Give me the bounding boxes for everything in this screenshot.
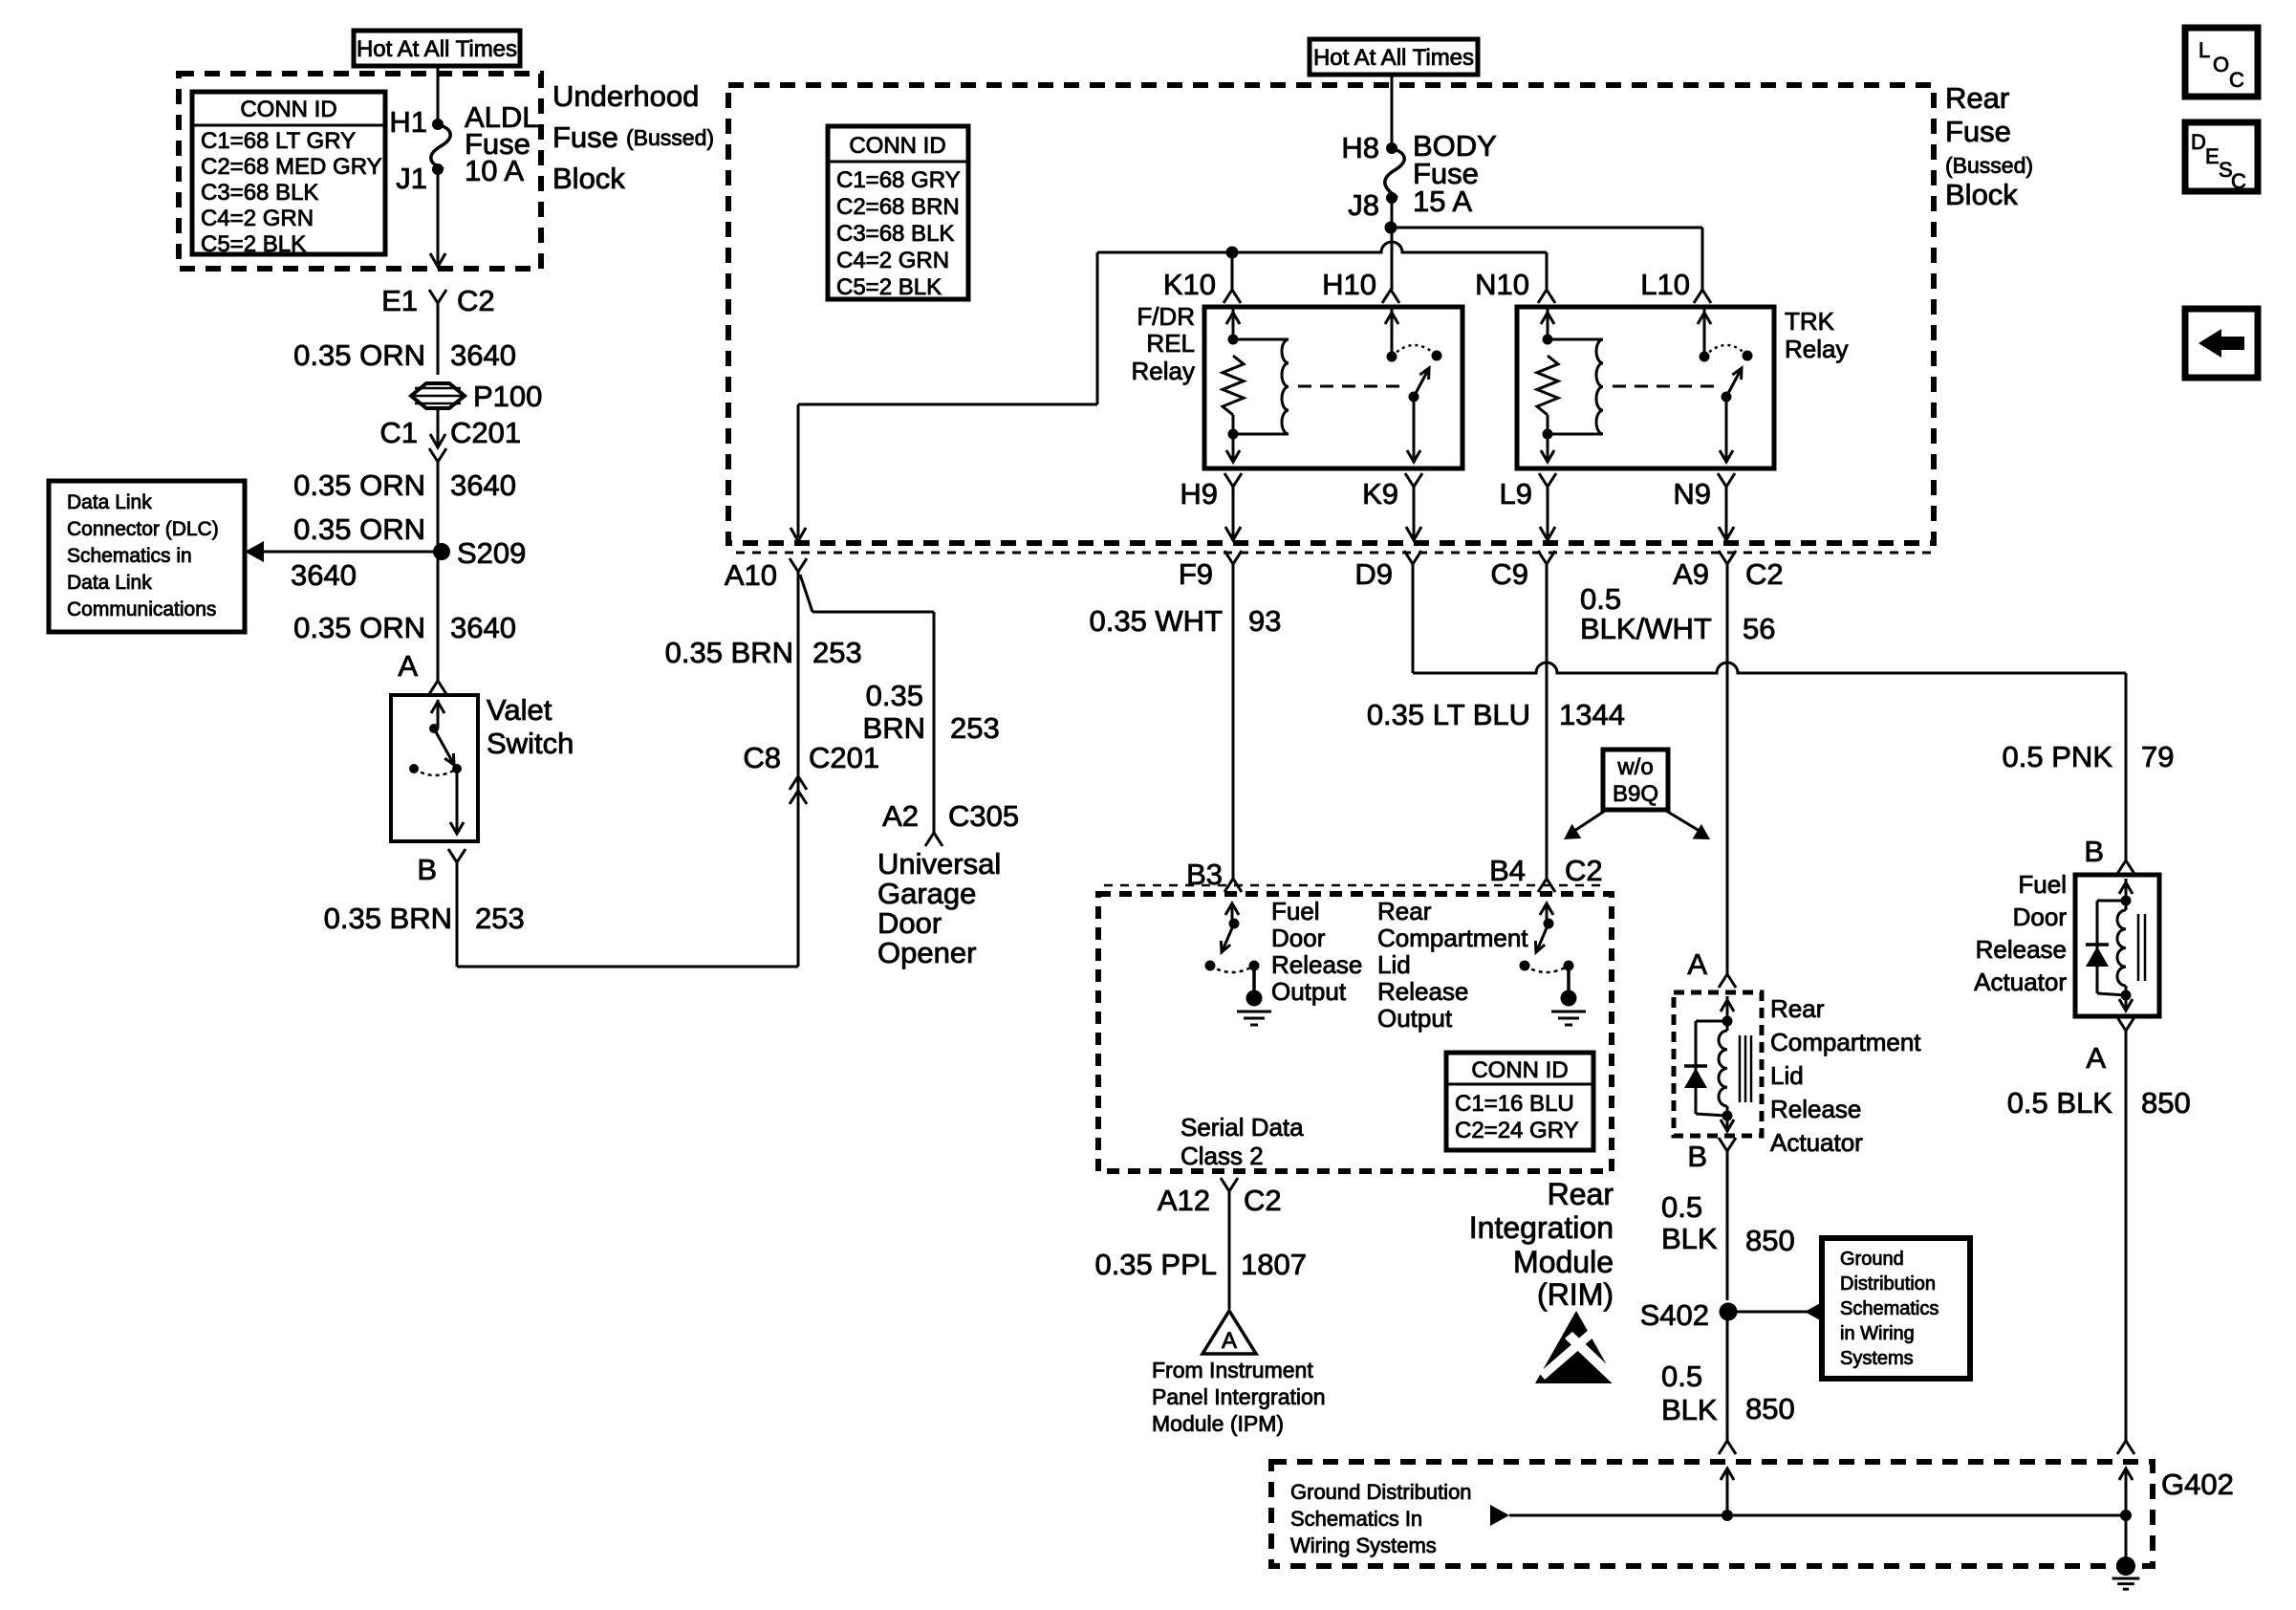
svg-text:C9: C9	[1490, 557, 1528, 591]
svg-text:Communications: Communications	[67, 598, 216, 620]
svg-text:Release: Release	[1770, 1095, 1861, 1123]
svg-text:Fuse: Fuse	[552, 120, 618, 154]
svg-text:F/DR: F/DR	[1137, 302, 1195, 331]
svg-text:J1: J1	[396, 162, 427, 195]
svg-text:0.35 WHT: 0.35 WHT	[1089, 604, 1223, 638]
svg-text:A12: A12	[1158, 1184, 1210, 1217]
svg-text:E1: E1	[381, 284, 418, 317]
svg-text:S209: S209	[457, 536, 526, 570]
svg-text:15 A: 15 A	[1413, 185, 1472, 218]
svg-text:850: 850	[1745, 1224, 1795, 1257]
svg-text:253: 253	[812, 636, 862, 669]
svg-text:Rear: Rear	[1548, 1177, 1614, 1211]
svg-text:C2=68 BRN: C2=68 BRN	[836, 194, 960, 220]
svg-text:Data Link: Data Link	[67, 491, 152, 513]
svg-text:C2: C2	[1565, 854, 1603, 887]
svg-text:B: B	[2084, 835, 2104, 868]
svg-text:Fuel: Fuel	[2018, 870, 2067, 899]
svg-text:From Instrument: From Instrument	[1152, 1358, 1313, 1382]
svg-text:Schematics: Schematics	[1840, 1298, 1939, 1319]
svg-text:0.35: 0.35	[866, 679, 923, 712]
svg-text:A: A	[1222, 1328, 1237, 1354]
svg-text:A10: A10	[725, 558, 777, 592]
svg-text:H9: H9	[1180, 477, 1218, 511]
svg-text:Switch: Switch	[487, 727, 574, 760]
svg-text:C: C	[2231, 169, 2246, 193]
svg-text:1344: 1344	[1559, 698, 1625, 731]
svg-text:A9: A9	[1673, 557, 1709, 591]
svg-text:B: B	[417, 853, 437, 886]
svg-text:Connector (DLC): Connector (DLC)	[67, 518, 219, 540]
svg-text:C1=16 BLU: C1=16 BLU	[1455, 1091, 1574, 1117]
svg-text:Block: Block	[552, 162, 625, 195]
svg-text:Actuator: Actuator	[1770, 1128, 1863, 1157]
svg-text:D: D	[2191, 130, 2206, 154]
svg-text:Module (IPM): Module (IPM)	[1152, 1411, 1284, 1436]
svg-text:0.5: 0.5	[1661, 1360, 1702, 1393]
svg-text:Valet: Valet	[487, 693, 552, 727]
svg-text:Underhood: Underhood	[552, 79, 699, 113]
svg-text:0.35 ORN: 0.35 ORN	[293, 468, 425, 502]
svg-text:K9: K9	[1362, 477, 1398, 511]
svg-text:Data Link: Data Link	[67, 572, 152, 594]
svg-text:Lid: Lid	[1377, 950, 1411, 979]
svg-text:C2=24 GRY: C2=24 GRY	[1455, 1118, 1579, 1143]
svg-text:TRK: TRK	[1785, 307, 1835, 336]
svg-text:H1: H1	[389, 105, 427, 139]
svg-text:L: L	[2199, 38, 2210, 62]
svg-text:Actuator: Actuator	[1974, 968, 2067, 996]
svg-text:850: 850	[1745, 1392, 1795, 1425]
svg-text:Rear: Rear	[1945, 81, 2009, 115]
svg-text:B9Q: B9Q	[1613, 781, 1658, 807]
svg-text:A: A	[2086, 1041, 2106, 1075]
svg-text:3640: 3640	[450, 468, 516, 502]
svg-text:L10: L10	[1640, 268, 1690, 301]
svg-text:BLK: BLK	[1661, 1393, 1718, 1426]
svg-text:Relay: Relay	[1132, 357, 1195, 385]
svg-text:0.5: 0.5	[1580, 582, 1621, 616]
svg-text:Door: Door	[877, 906, 942, 940]
svg-text:0.5 BLK: 0.5 BLK	[2007, 1086, 2113, 1120]
svg-text:Universal: Universal	[877, 847, 1001, 881]
svg-text:(RIM): (RIM)	[1537, 1277, 1614, 1312]
svg-text:Serial Data: Serial Data	[1180, 1113, 1304, 1142]
svg-text:Door: Door	[2013, 903, 2068, 931]
svg-text:Class 2: Class 2	[1180, 1142, 1264, 1170]
svg-text:93: 93	[1248, 604, 1281, 638]
svg-text:CONN ID: CONN ID	[1471, 1057, 1568, 1083]
svg-text:253: 253	[475, 902, 525, 935]
svg-text:0.35 ORN: 0.35 ORN	[293, 512, 425, 546]
svg-text:C4=2 GRN: C4=2 GRN	[836, 248, 949, 273]
svg-text:C5=2 BLK: C5=2 BLK	[201, 231, 306, 257]
svg-text:1807: 1807	[1241, 1248, 1307, 1281]
svg-text:3640: 3640	[291, 558, 357, 592]
svg-text:Compartment: Compartment	[1770, 1028, 1921, 1056]
svg-text:56: 56	[1743, 612, 1775, 645]
svg-text:0.35 ORN: 0.35 ORN	[293, 611, 425, 644]
svg-text:3640: 3640	[450, 611, 516, 644]
svg-text:Rear: Rear	[1377, 897, 1432, 925]
svg-text:0.5 PNK: 0.5 PNK	[2003, 740, 2113, 773]
svg-text:H10: H10	[1322, 268, 1376, 301]
svg-text:C1=68 LT GRY: C1=68 LT GRY	[201, 128, 356, 154]
svg-text:Schematics in: Schematics in	[67, 545, 192, 567]
svg-text:C1=68 GRY: C1=68 GRY	[836, 167, 961, 193]
svg-text:CONN ID: CONN ID	[240, 97, 336, 122]
svg-text:C2=68 MED GRY: C2=68 MED GRY	[201, 154, 382, 180]
svg-text:0.35 BRN: 0.35 BRN	[665, 636, 793, 669]
svg-text:Ground: Ground	[1840, 1249, 1904, 1270]
svg-text:Release: Release	[1976, 935, 2067, 964]
svg-text:C3=68 BLK: C3=68 BLK	[201, 180, 318, 206]
svg-text:Garage: Garage	[877, 877, 976, 910]
svg-text:A: A	[398, 649, 418, 683]
svg-text:Output: Output	[1377, 1004, 1453, 1033]
svg-text:C2: C2	[1244, 1184, 1282, 1217]
svg-text:Block: Block	[1945, 178, 2018, 211]
svg-text:Lid: Lid	[1770, 1061, 1804, 1090]
svg-text:Release: Release	[1271, 950, 1362, 979]
svg-text:w/o: w/o	[1616, 754, 1653, 780]
svg-text:C201: C201	[450, 416, 521, 449]
svg-text:B4: B4	[1489, 854, 1526, 887]
svg-text:O: O	[2213, 53, 2229, 76]
svg-text:Wiring Systems: Wiring Systems	[1290, 1534, 1437, 1557]
svg-text:3640: 3640	[450, 338, 516, 372]
svg-text:850: 850	[2141, 1086, 2191, 1120]
svg-text:B: B	[1687, 1140, 1707, 1173]
svg-text:0.35 LT BLU: 0.35 LT BLU	[1367, 698, 1530, 731]
svg-text:253: 253	[950, 711, 1000, 745]
svg-text:Systems: Systems	[1840, 1348, 1914, 1369]
svg-text:Panel Intergration: Panel Intergration	[1152, 1384, 1326, 1409]
svg-text:D9: D9	[1354, 557, 1393, 591]
svg-text:S402: S402	[1640, 1298, 1709, 1332]
svg-text:Module: Module	[1513, 1245, 1614, 1279]
svg-text:BRN: BRN	[863, 711, 925, 745]
svg-text:BLK: BLK	[1661, 1222, 1718, 1255]
svg-text:L9: L9	[1500, 477, 1532, 511]
svg-text:(Bussed): (Bussed)	[1945, 153, 2033, 178]
svg-text:Door: Door	[1271, 924, 1326, 952]
svg-text:C4=2 GRN: C4=2 GRN	[201, 206, 314, 231]
svg-text:E: E	[2205, 144, 2220, 168]
svg-text:Hot At All Times: Hot At All Times	[357, 36, 517, 62]
svg-text:79: 79	[2141, 740, 2174, 773]
svg-text:C201: C201	[809, 741, 879, 774]
svg-text:F9: F9	[1179, 557, 1213, 591]
svg-text:A: A	[1687, 947, 1707, 981]
svg-text:C2: C2	[1745, 557, 1784, 591]
svg-text:C2: C2	[457, 284, 495, 317]
svg-text:CONN ID: CONN ID	[849, 133, 945, 159]
svg-text:N9: N9	[1673, 477, 1711, 511]
svg-text:C: C	[2229, 68, 2244, 92]
svg-text:in Wiring: in Wiring	[1840, 1323, 1915, 1344]
svg-text:BLK/WHT: BLK/WHT	[1580, 612, 1712, 645]
svg-text:N10: N10	[1475, 268, 1529, 301]
svg-text:C5=2 BLK: C5=2 BLK	[836, 274, 942, 300]
svg-text:H8: H8	[1341, 131, 1379, 164]
svg-text:Schematics In: Schematics In	[1290, 1507, 1422, 1531]
svg-text:Compartment: Compartment	[1377, 924, 1528, 952]
svg-text:0.35 ORN: 0.35 ORN	[293, 338, 425, 372]
svg-text:P100: P100	[473, 380, 542, 413]
svg-text:REL: REL	[1146, 329, 1195, 358]
svg-text:K10: K10	[1163, 268, 1216, 301]
svg-text:10 A: 10 A	[465, 154, 524, 187]
svg-text:0.35 PPL: 0.35 PPL	[1094, 1248, 1217, 1281]
svg-text:Distribution: Distribution	[1840, 1273, 1936, 1295]
svg-text:Fuse: Fuse	[1945, 115, 2011, 148]
svg-text:0.5: 0.5	[1661, 1190, 1702, 1224]
svg-text:Rear: Rear	[1770, 994, 1825, 1023]
svg-text:Opener: Opener	[877, 936, 976, 969]
svg-text:(Bussed): (Bussed)	[626, 125, 714, 150]
svg-text:Integration: Integration	[1469, 1210, 1614, 1245]
svg-text:Ground Distribution: Ground Distribution	[1290, 1480, 1472, 1504]
svg-text:C305: C305	[948, 799, 1019, 833]
svg-text:A2: A2	[882, 799, 919, 833]
svg-text:G402: G402	[2161, 1468, 2234, 1501]
svg-text:Hot At All Times: Hot At All Times	[1313, 45, 1474, 71]
svg-text:Relay: Relay	[1785, 335, 1848, 363]
svg-text:J8: J8	[1348, 188, 1379, 222]
svg-text:0.35 BRN: 0.35 BRN	[324, 902, 452, 935]
svg-text:C1: C1	[379, 416, 418, 449]
svg-text:Release: Release	[1377, 977, 1468, 1006]
svg-text:Fuel: Fuel	[1271, 897, 1320, 925]
svg-text:Output: Output	[1271, 977, 1347, 1006]
svg-text:C3=68 BLK: C3=68 BLK	[836, 221, 954, 247]
svg-text:C8: C8	[743, 741, 781, 774]
